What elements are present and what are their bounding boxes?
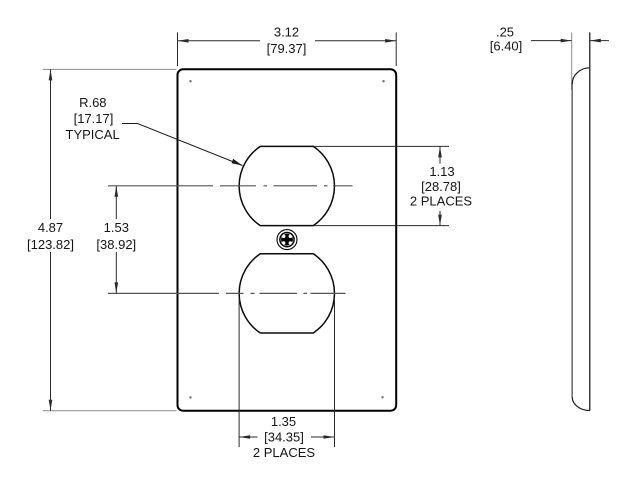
svg-text:[6.40]: [6.40] <box>490 39 523 54</box>
screw head <box>277 230 297 250</box>
svg-text:R.68: R.68 <box>79 95 106 110</box>
dimension 3.12 width: extension lines <box>178 32 397 66</box>
svg-text:[79.37]: [79.37] <box>267 41 307 56</box>
svg-text:3.12: 3.12 <box>274 25 299 40</box>
svg-text:TYPICAL: TYPICAL <box>66 127 120 142</box>
svg-text:2 PLACES: 2 PLACES <box>410 194 472 209</box>
svg-text:4.87: 4.87 <box>38 220 63 235</box>
svg-text:[123.82]: [123.82] <box>27 237 74 252</box>
dimension .25 thickness: dimension line and arrows <box>531 39 609 43</box>
svg-text:1.35: 1.35 <box>271 414 296 429</box>
dimension 1.53 outlet spacing: dimension line and arrows <box>115 186 119 294</box>
lower outlet centerline <box>108 292 346 294</box>
side view back edge <box>589 32 591 410</box>
dimension 4.87 height: extension lines <box>43 69 177 410</box>
plate outline <box>178 69 397 410</box>
svg-text:[34.35]: [34.35] <box>264 430 304 445</box>
side view face extension line <box>571 32 573 90</box>
svg-text:[38.92]: [38.92] <box>96 237 136 252</box>
side view top curve <box>572 68 590 84</box>
dimension 1.35 outlet width: extension lines <box>239 298 334 447</box>
svg-text:1.13: 1.13 <box>429 164 454 179</box>
corner mark top-left <box>189 80 191 82</box>
svg-text:2 PLACES: 2 PLACES <box>253 445 315 460</box>
dimension 1.13 outlet height: extension lines <box>314 146 449 225</box>
dimension 3.12 width: dimension line and arrows <box>178 39 397 43</box>
leader R.68 typical <box>122 124 243 166</box>
svg-text:[28.78]: [28.78] <box>421 179 461 194</box>
upper outlet centerline <box>108 185 353 187</box>
svg-text:1.53: 1.53 <box>104 220 129 235</box>
dimension 4.87 height: dimension line and arrows <box>49 69 53 410</box>
side view bottom curve <box>572 397 590 411</box>
svg-text:.25: .25 <box>496 25 514 40</box>
svg-text:[17.17]: [17.17] <box>74 111 114 126</box>
side view face edge <box>571 84 573 397</box>
upper outlet opening <box>239 146 334 225</box>
corner mark bottom-right <box>381 396 383 398</box>
dimension 1.35 outlet width: dimension line and arrows <box>239 435 334 439</box>
corner mark top-right <box>382 80 384 82</box>
corner mark bottom-left <box>189 396 191 398</box>
lower outlet opening <box>239 254 334 333</box>
dimension 1.13 outlet height: dimension line and arrows <box>438 146 442 225</box>
